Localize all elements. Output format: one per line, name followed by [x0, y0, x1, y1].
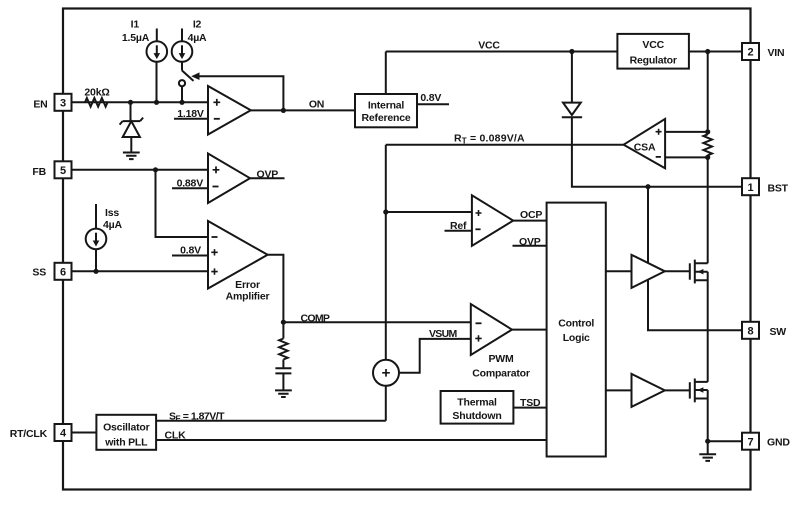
minus input U2	[213, 186, 219, 188]
svg-text:VCC: VCC	[642, 39, 664, 51]
minus input U1	[214, 118, 220, 120]
node power ground junction	[705, 439, 710, 444]
svg-text:0.88V: 0.88V	[177, 177, 204, 189]
wire control to driver 2	[606, 389, 632, 391]
wire capacitor to ground	[282, 373, 284, 390]
svg-text:8: 8	[747, 325, 753, 337]
box internal reference	[355, 94, 417, 127]
svg-text:ON: ON	[309, 99, 324, 111]
svg-text:Error: Error	[235, 279, 260, 291]
wire BST rail to SW	[648, 187, 742, 331]
resistor R3 current sense	[703, 134, 712, 155]
node EN-zener junction	[128, 100, 133, 105]
svg-text:4µA: 4µA	[188, 32, 207, 44]
svg-text:SW: SW	[770, 326, 787, 338]
node EN-switch junction	[179, 100, 184, 105]
wire ground to pin 7	[708, 440, 742, 442]
svg-text:20kΩ: 20kΩ	[84, 87, 109, 99]
comparator U2 OVP	[208, 154, 250, 204]
svg-text:3: 3	[60, 97, 66, 109]
svg-text:FB: FB	[32, 166, 46, 178]
node OCP junction	[383, 209, 388, 214]
node SS junction	[93, 269, 98, 274]
minus input U5	[476, 322, 482, 324]
svg-text:EN: EN	[33, 99, 47, 111]
switch SW1 contact	[179, 80, 185, 86]
svg-text:I2: I2	[193, 19, 202, 31]
switch SW1 blade	[182, 71, 194, 81]
svg-text:OVP: OVP	[257, 169, 279, 181]
ref line 1.18V	[174, 118, 208, 120]
plus input U5	[475, 335, 481, 341]
wire I2 lead top	[181, 29, 183, 42]
wire TSD	[513, 407, 546, 409]
svg-text:CLK: CLK	[165, 430, 187, 442]
wire PWM output	[512, 329, 547, 331]
wire CLK	[156, 439, 546, 441]
svg-text:1.5µA: 1.5µA	[122, 32, 150, 44]
svg-text:VSUM: VSUM	[429, 328, 457, 340]
plus input U1	[213, 99, 220, 106]
summing node A	[373, 360, 399, 386]
ref line 0.8V	[172, 255, 208, 257]
svg-text:6: 6	[60, 266, 66, 278]
wire control to driver 1	[606, 270, 632, 272]
wire VCC riser	[385, 52, 387, 95]
wire summing output VSUM	[399, 339, 471, 373]
svg-text:1: 1	[747, 182, 753, 194]
wire zener to ground	[130, 137, 132, 153]
ref line 0.88V	[172, 187, 208, 189]
box VCC regulator	[617, 34, 689, 69]
pin 4 RT/CLK	[55, 424, 72, 441]
svg-text:7: 7	[747, 436, 753, 448]
minus input U3	[212, 236, 218, 238]
plus input U4	[476, 210, 482, 216]
plus input U3 ss	[211, 268, 217, 274]
stub 0.8V reference output	[417, 103, 449, 105]
svg-text:2: 2	[747, 47, 753, 59]
wire CSA minus input	[665, 156, 708, 158]
zener diode D2	[120, 118, 144, 125]
box control logic	[547, 203, 606, 457]
svg-text:SS: SS	[32, 267, 46, 279]
wire COMP	[283, 321, 470, 323]
pin 1 BST	[742, 178, 759, 195]
plus input CSA	[656, 129, 662, 135]
current source I2	[172, 41, 193, 62]
svg-text:Internal: Internal	[368, 100, 405, 112]
box oscillator with PLL	[96, 415, 156, 450]
svg-text:Shutdown: Shutdown	[452, 410, 501, 422]
pin 2 VIN	[742, 43, 759, 60]
wire zener branch	[130, 102, 132, 120]
wire diode to BST rail	[572, 117, 742, 187]
current source I1	[147, 41, 168, 62]
svg-text:Reference: Reference	[362, 112, 411, 124]
wire OCP output	[513, 220, 546, 222]
wire error amp output	[268, 255, 284, 322]
svg-text:VIN: VIN	[768, 47, 785, 59]
wire OCP to comparator	[386, 211, 472, 213]
comparator U1 enable	[208, 86, 251, 135]
wire regulator to VIN pin	[689, 51, 742, 53]
svg-text:Iss: Iss	[105, 207, 119, 219]
wire I2 to switch blade	[181, 62, 183, 71]
node FB junction	[153, 167, 158, 172]
ground below zener	[123, 153, 140, 160]
svg-text:4: 4	[60, 428, 67, 440]
svg-text:RT/CLK: RT/CLK	[10, 428, 48, 440]
pin 3 EN	[55, 94, 72, 111]
node VIN junction	[705, 49, 710, 54]
wire resistor to capacitor	[282, 360, 284, 369]
node VCC-diode junction	[569, 49, 574, 54]
wire ON output	[251, 109, 355, 111]
wire slope to summing node	[385, 386, 387, 421]
plus input U2	[213, 166, 220, 173]
wire CSA plus input	[665, 131, 708, 133]
ground below compensation	[275, 390, 292, 397]
wire VCC rail	[386, 51, 618, 53]
comparator U4 OCP	[472, 195, 513, 246]
svg-text:CSA: CSA	[634, 141, 656, 153]
wire switch to EN line	[181, 86, 183, 102]
wire SE slope	[156, 420, 386, 422]
wire Q1 source to Q2 drain	[707, 272, 709, 382]
node BST junction	[645, 184, 650, 189]
svg-text:Amplifier: Amplifier	[226, 291, 270, 303]
resistor R1 20k zigzag	[85, 98, 107, 107]
node sense bottom	[705, 155, 710, 160]
transistor Q1 high side	[689, 263, 691, 279]
ground power	[699, 454, 716, 461]
wire FB divider branch	[156, 170, 209, 237]
node ON junction	[281, 108, 286, 113]
svg-text:COMP: COMP	[301, 313, 330, 325]
wire EN from pin 3 to comparator	[72, 101, 209, 103]
svg-text:OVP: OVP	[519, 236, 541, 248]
pin 5 FB	[55, 161, 72, 178]
svg-text:I1: I1	[131, 19, 140, 31]
resistor R2 compensation	[279, 339, 288, 360]
node sense top	[705, 129, 710, 134]
wire pin 4 to oscillator	[72, 432, 97, 434]
svg-text:Thermal: Thermal	[457, 396, 497, 408]
svg-text:PWM: PWM	[488, 353, 514, 365]
wire FB from pin 5	[72, 169, 209, 171]
minus input CSA	[656, 156, 661, 158]
pin 8 SW	[742, 322, 759, 339]
bootstrap diode D1	[563, 103, 581, 115]
wire sense rail upper	[707, 52, 709, 135]
svg-text:1.18V: 1.18V	[177, 108, 204, 120]
wire gate 1	[665, 270, 690, 272]
arrow feedback to switch	[191, 72, 199, 80]
svg-text:BST: BST	[768, 182, 789, 194]
box thermal shutdown	[441, 391, 514, 424]
op-amp U3 error amplifier	[208, 221, 268, 289]
svg-text:4µA: 4µA	[103, 219, 122, 231]
ref line Ref	[445, 230, 472, 232]
svg-text:Comparator: Comparator	[472, 368, 530, 380]
svg-text:TSD: TSD	[520, 397, 541, 409]
stub OVP input	[513, 245, 547, 247]
plus summing node	[382, 369, 390, 377]
op-amp U6 CSA	[624, 119, 666, 168]
svg-text:with PLL: with PLL	[104, 436, 148, 448]
transistor Q2 low side	[689, 382, 691, 398]
wire COMP to compensation resistor	[282, 322, 284, 338]
wire SS from pin 6	[72, 270, 209, 272]
svg-text:5: 5	[60, 165, 66, 177]
comparator U5 PWM	[471, 304, 512, 355]
plus input U3 ref	[211, 249, 217, 255]
svg-text:VCC: VCC	[478, 40, 500, 52]
svg-text:Control: Control	[558, 318, 594, 330]
wire Iss lead	[95, 204, 97, 229]
pin 7 GND	[742, 433, 759, 450]
wire Iss to SS line	[95, 249, 97, 271]
pin 6 SS	[55, 263, 72, 280]
svg-text:Regulator: Regulator	[630, 55, 677, 67]
wire I1 to EN line	[156, 62, 158, 103]
node COMP junction	[281, 320, 286, 325]
wire RT output	[386, 144, 624, 146]
svg-text:GND: GND	[767, 437, 790, 449]
wire Q2 source to ground	[707, 390, 709, 454]
wire sense rail lower	[707, 155, 709, 263]
node EN-I1 junction	[154, 100, 159, 105]
wire gate 2	[665, 389, 690, 391]
wire diode anode	[571, 52, 573, 103]
svg-text:OCP: OCP	[520, 209, 542, 221]
stub OVP output	[250, 177, 285, 179]
capacitor C1 compensation	[275, 368, 291, 373]
wire OCP vertical	[385, 145, 387, 360]
svg-text:0.8V: 0.8V	[180, 244, 201, 256]
wire I1 lead top	[156, 29, 158, 42]
wire U1 feedback	[199, 76, 284, 110]
svg-text:Ref: Ref	[450, 220, 467, 232]
svg-text:Logic: Logic	[563, 332, 590, 344]
minus input U4	[475, 228, 480, 230]
buffer driver 1	[632, 255, 665, 288]
current source Iss	[86, 229, 107, 250]
buffer driver 2	[632, 374, 665, 407]
svg-text:0.8V: 0.8V	[420, 92, 441, 104]
svg-text:Oscillator: Oscillator	[103, 421, 150, 433]
